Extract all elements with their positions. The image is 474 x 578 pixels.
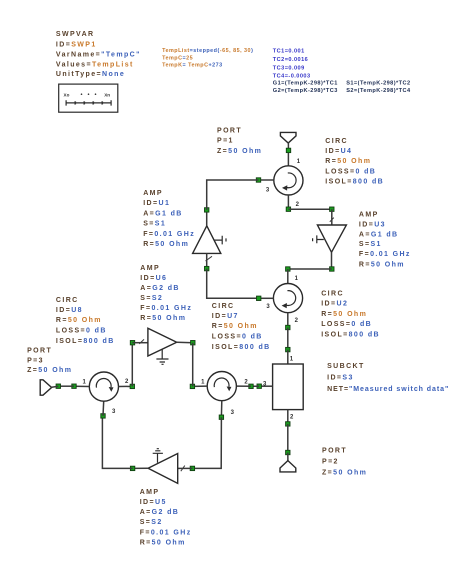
AMP U3 parameter text	[359, 212, 411, 269]
node U7 pin 1	[190, 384, 194, 388]
CIRC U7 parameter text	[212, 303, 271, 351]
svg-text:F=0.01 GHz: F=0.01 GHz	[140, 529, 192, 536]
svg-text:2: 2	[125, 379, 129, 385]
svg-text:A=G1 dB: A=G1 dB	[359, 231, 399, 238]
svg-text:3: 3	[266, 304, 270, 310]
equation G1 S1	[273, 81, 411, 87]
svg-text:AMP: AMP	[140, 265, 160, 272]
svg-text:ISOL=800 dB: ISOL=800 dB	[56, 338, 115, 345]
amp U3	[313, 225, 347, 252]
wire subckt S3 pin 3 lead	[259, 385, 272, 387]
amp U1 pin 1 tick	[206, 256, 213, 261]
svg-text:ID=U8: ID=U8	[56, 307, 83, 314]
node amp U6 output	[191, 341, 195, 345]
wire amp U1 input lead	[206, 253, 208, 268]
svg-text:ISOL=800 dB: ISOL=800 dB	[325, 178, 384, 185]
wire amp U1 input to U2 pin 3	[207, 269, 259, 299]
svg-text:TC4=-0.0003: TC4=-0.0003	[273, 73, 311, 79]
svg-text:A=G1 dB: A=G1 dB	[143, 210, 183, 217]
circulator U7	[207, 372, 236, 401]
AMP U1 parameter text	[143, 190, 195, 248]
svg-text:ID=U5: ID=U5	[140, 499, 167, 506]
wire amp U3 output lead	[331, 252, 333, 269]
amp U5 pin 1 tick	[181, 466, 185, 472]
svg-text:1: 1	[83, 379, 87, 385]
SWPVAR SWP1 symbol	[59, 84, 118, 112]
circulator U8	[89, 372, 118, 401]
svg-text:P=3: P=3	[27, 357, 44, 364]
node amp U3 output	[330, 267, 334, 271]
node port P1 / U4 pin 1	[286, 148, 290, 152]
node port P2	[286, 450, 290, 454]
svg-text:TempK= TempC+273: TempK= TempC+273	[162, 63, 223, 69]
svg-text:ID=U6: ID=U6	[140, 275, 167, 282]
wire U8 pin 2 lead	[119, 385, 133, 387]
svg-text:ID=SWP1: ID=SWP1	[56, 42, 97, 49]
amp U5	[148, 449, 178, 484]
svg-text:R=50 Ohm: R=50 Ohm	[212, 323, 258, 330]
svg-text:F=0.01 GHz: F=0.01 GHz	[359, 251, 411, 258]
svg-text:Z=50 Ohm: Z=50 Ohm	[322, 470, 367, 477]
svg-text:TC2=0.0016: TC2=0.0016	[273, 57, 308, 63]
svg-text:ID=S3: ID=S3	[327, 375, 354, 382]
svg-text:S1=(TempK-298)*TC2: S1=(TempK-298)*TC2	[346, 81, 410, 87]
wire amp U3 output to U2 pin 1	[288, 268, 332, 270]
node U8 pin 3	[101, 414, 105, 418]
AMP U6 parameter text	[140, 265, 192, 322]
node U4 pin 3	[256, 178, 260, 182]
node amp U3 input	[330, 207, 334, 211]
svg-text:UnitType=None: UnitType=None	[56, 71, 125, 78]
node U2 pin 2	[286, 325, 290, 329]
svg-text:S=S1: S=S1	[143, 221, 166, 228]
CIRC U4 parameter text	[325, 138, 384, 185]
svg-text:3: 3	[266, 187, 270, 193]
amp U6	[148, 328, 177, 364]
CIRC U8 parameter text	[56, 297, 115, 345]
wire U8 pin 1 lead	[74, 385, 89, 387]
wire amp U5 output lead	[133, 467, 149, 469]
node U4 pin 2	[286, 207, 290, 211]
port P3 label	[27, 347, 72, 374]
svg-text:1: 1	[297, 159, 301, 165]
wire amp U6 output lead	[177, 341, 193, 343]
circulator U4	[274, 166, 303, 195]
svg-text:CIRC: CIRC	[325, 138, 348, 145]
wire U7 pin 3 lead	[220, 401, 222, 418]
node U7 pin 3	[219, 415, 223, 419]
node U2 pin 1	[286, 267, 290, 271]
svg-text:3: 3	[231, 410, 235, 416]
svg-text:TempC=25: TempC=25	[162, 55, 193, 61]
svg-text:NET="Measured switch data": NET="Measured switch data"	[327, 386, 449, 393]
svg-text:2: 2	[296, 202, 300, 208]
port P2 label	[322, 448, 367, 477]
svg-text:2: 2	[295, 318, 299, 324]
svg-text:S2=(TempK-298)*TC4: S2=(TempK-298)*TC4	[346, 88, 411, 94]
wire port P3 to U8 pin 1	[58, 385, 74, 387]
svg-text:TC1=0.001: TC1=0.001	[273, 48, 305, 54]
svg-text:G2=(TempK-298)*TC3: G2=(TempK-298)*TC3	[273, 88, 338, 94]
subckt S3 box	[273, 364, 304, 410]
svg-text:R=50 Ohm: R=50 Ohm	[325, 158, 371, 165]
svg-text:PORT: PORT	[322, 448, 347, 455]
wire port P1 to circulator U4 pin 1	[287, 143, 289, 166]
circulator U2	[273, 284, 302, 313]
wire U4 pin 2 lead	[287, 195, 289, 209]
svg-text:ID=U7: ID=U7	[212, 313, 239, 320]
equation G2 S2	[273, 88, 411, 94]
svg-text:3: 3	[112, 409, 116, 415]
wire U4 pin 3 lead	[259, 179, 274, 181]
wire amp U3 input lead	[331, 209, 333, 225]
wire U7 pin 3 to amp U5 input	[192, 417, 221, 468]
svg-text:F=0.01 GHz: F=0.01 GHz	[143, 231, 195, 238]
wire U4 pin 2 to amp U3 input	[288, 208, 331, 210]
svg-text:R=50 Ohm: R=50 Ohm	[140, 315, 186, 322]
svg-text:Xo: Xo	[64, 92, 70, 97]
node port P3	[56, 384, 60, 388]
wire U8 pin 3 lead	[102, 401, 105, 416]
svg-text:R=50 Ohm: R=50 Ohm	[140, 539, 186, 546]
wire S3 pin 2 to port P2	[287, 424, 289, 453]
svg-text:A=G2 dB: A=G2 dB	[140, 509, 180, 516]
svg-text:SUBCKT: SUBCKT	[327, 363, 365, 370]
svg-text:VarName="TempC": VarName="TempC"	[56, 52, 141, 59]
wire U2 pin 3 lead	[259, 297, 274, 299]
AMP U5 parameter text	[140, 489, 192, 547]
svg-text:ID=U1: ID=U1	[143, 200, 170, 207]
wire U7 pin 2 to S3 pin 3	[251, 385, 259, 387]
svg-text:TC3=0.009: TC3=0.009	[273, 65, 305, 71]
svg-text:P=1: P=1	[217, 138, 234, 145]
svg-text:SWPVAR: SWPVAR	[56, 31, 95, 38]
wire U2 pin 2 to subckt S3 pin 1	[287, 328, 289, 350]
port P1 label	[217, 128, 262, 155]
wire amp U6 output to U7 pin 1	[192, 343, 194, 387]
node subckt S3 pin 3	[257, 384, 261, 388]
svg-text:PORT: PORT	[27, 347, 52, 354]
svg-text:F=0.01 GHz: F=0.01 GHz	[140, 305, 192, 312]
svg-text:Z=50 Ohm: Z=50 Ohm	[27, 367, 72, 374]
svg-text:AMP: AMP	[359, 212, 379, 219]
svg-text:Values=TempList: Values=TempList	[56, 61, 134, 68]
node amp U1 output	[205, 208, 209, 212]
svg-text:ID=U3: ID=U3	[359, 221, 386, 228]
svg-text:LOSS=0 dB: LOSS=0 dB	[325, 168, 376, 175]
node U7 pin 2	[249, 384, 253, 388]
port P2 symbol	[280, 461, 296, 472]
SUBCKT S3 parameter text	[327, 363, 449, 393]
node amp U1 input	[205, 266, 209, 270]
svg-text:ISOL=800 dB: ISOL=800 dB	[321, 331, 380, 338]
svg-text:1: 1	[290, 356, 294, 362]
svg-text:G1=(TempK-298)*TC1: G1=(TempK-298)*TC1	[273, 81, 338, 87]
svg-text:Xn: Xn	[104, 92, 110, 97]
node amp U6 input	[130, 341, 134, 345]
svg-text:TempList=stepped(-65, 85, 30): TempList=stepped(-65, 85, 30)	[162, 48, 253, 54]
node U2 pin 3	[257, 296, 261, 300]
svg-text:Z=50 Ohm: Z=50 Ohm	[217, 148, 262, 155]
wire port P3 lead	[52, 385, 59, 388]
amp U6 pin 1 tick	[139, 339, 144, 344]
wire U7 pin 2 lead	[236, 385, 251, 387]
node amp U5 output	[130, 466, 134, 470]
wire amp U5 output to U8 pin 3	[102, 416, 132, 469]
svg-text:S=S2: S=S2	[140, 519, 163, 526]
svg-text:LOSS=0 dB: LOSS=0 dB	[321, 321, 372, 328]
svg-text:CIRC: CIRC	[321, 291, 344, 298]
node amp U5 input	[190, 466, 194, 470]
port P3 symbol	[40, 380, 51, 395]
amp U1	[193, 226, 226, 254]
wire amp U1 output to U4 pin 3	[207, 180, 259, 210]
svg-text:AMP: AMP	[143, 190, 163, 197]
svg-text:ID=U4: ID=U4	[325, 148, 352, 155]
wire amp U1 output lead	[206, 210, 208, 226]
svg-text:R=50 Ohm: R=50 Ohm	[143, 241, 189, 248]
node subckt S3 pin 1	[286, 347, 290, 351]
svg-text:CIRC: CIRC	[212, 303, 235, 310]
svg-text:R=50 Ohm: R=50 Ohm	[56, 317, 102, 324]
svg-text:R=50 Ohm: R=50 Ohm	[321, 311, 367, 318]
svg-text:CIRC: CIRC	[56, 297, 79, 304]
svg-text:1: 1	[295, 276, 299, 282]
wire amp U5 input lead	[178, 467, 193, 469]
svg-text:2: 2	[244, 380, 248, 386]
wire U2 pin 1 lead	[287, 269, 289, 284]
svg-text:ID=U2: ID=U2	[321, 301, 348, 308]
svg-text:LOSS=0 dB: LOSS=0 dB	[212, 334, 263, 341]
svg-text:R=50 Ohm: R=50 Ohm	[359, 261, 405, 268]
wire amp U6 input lead	[132, 342, 148, 344]
amp U3 pin 1 tick	[330, 218, 334, 222]
wire U7 pin 1 lead	[192, 385, 207, 387]
svg-text:S=S2: S=S2	[140, 295, 163, 302]
svg-text:A=G2 dB: A=G2 dB	[140, 285, 180, 292]
svg-text:P=2: P=2	[322, 459, 339, 466]
svg-text:ISOL=800 dB: ISOL=800 dB	[212, 344, 271, 351]
svg-text:S=S1: S=S1	[359, 241, 382, 248]
node subckt S3 pin 2	[286, 422, 290, 426]
CIRC U2 parameter text	[321, 291, 380, 339]
svg-text:1: 1	[201, 380, 205, 386]
svg-text:LOSS=0 dB: LOSS=0 dB	[56, 327, 107, 334]
wire port P2 lead	[287, 453, 289, 461]
svg-text:2: 2	[290, 415, 294, 421]
wire subckt S3 pin 1 lead	[287, 350, 289, 364]
wire U2 pin 2 lead	[287, 313, 289, 328]
SWPVAR SWP1 parameter text	[56, 31, 141, 78]
port P1 symbol	[280, 132, 296, 143]
wire subckt S3 pin 2 lead	[287, 410, 289, 424]
svg-text:AMP: AMP	[140, 489, 160, 496]
svg-text:PORT: PORT	[217, 128, 242, 135]
node U8 pin 1	[72, 384, 76, 388]
node U8 pin 2	[130, 384, 134, 388]
wire U8 pin 2 to amp U6 input	[131, 343, 133, 387]
